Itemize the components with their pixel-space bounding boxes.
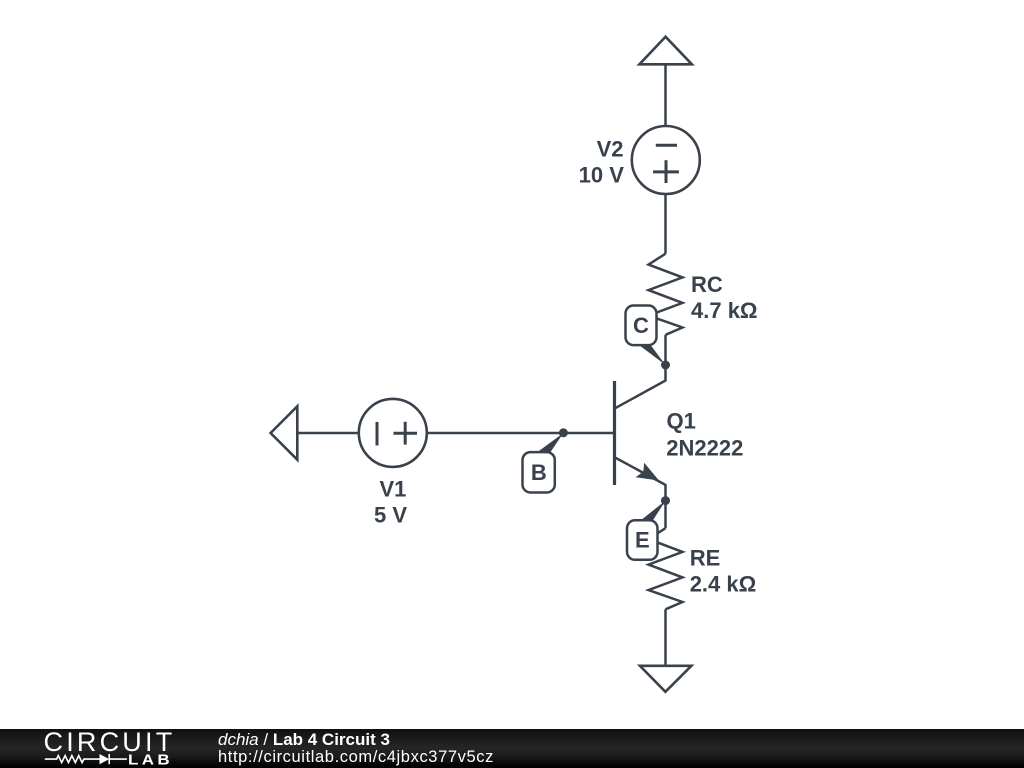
svg-text:5 V: 5 V: [374, 503, 407, 528]
label 2.4 kOhm: [690, 572, 757, 597]
svg-text:B: B: [531, 460, 547, 485]
wire V1 to base (node B): [427, 432, 613, 435]
footer url text: [218, 749, 494, 766]
power flag V+ (top supply triangle): [639, 37, 692, 65]
svg-text:C: C: [633, 313, 649, 338]
junction dot node C: [661, 361, 670, 370]
node C label box: [626, 306, 666, 366]
label RC: [691, 272, 723, 297]
junction dot node E: [661, 496, 670, 505]
svg-text:RE: RE: [690, 546, 721, 571]
node E label box: [627, 501, 666, 560]
svg-text:LAB: LAB: [128, 751, 173, 768]
wire port to V1: [298, 432, 359, 435]
label 2N2222: [666, 436, 743, 461]
wire node E to RE top: [664, 501, 667, 529]
wire RE bottom to ground: [664, 609, 667, 665]
resistor RE: [649, 528, 683, 609]
svg-text:RC: RC: [691, 272, 723, 297]
label 10 V: [579, 163, 625, 188]
wire collector jog: [615, 365, 666, 408]
label V2: [597, 137, 624, 162]
wire emitter jog: [664, 485, 667, 501]
CircuitLab logo: [0, 729, 200, 768]
svg-text:V2: V2: [597, 137, 624, 162]
svg-text:V1: V1: [379, 477, 406, 502]
wire V2 bottom to RC top: [664, 194, 667, 254]
footer title text: [218, 731, 390, 748]
node B label box: [523, 433, 564, 493]
transistor Q1: [615, 381, 666, 485]
input port flag (left triangle): [271, 406, 298, 459]
wire RC bottom to node C: [664, 335, 667, 365]
label V1: [379, 477, 406, 502]
junction dot node B: [559, 428, 568, 437]
svg-text:Q1: Q1: [667, 408, 696, 433]
svg-text:10 V: 10 V: [579, 163, 625, 188]
resistor RC: [649, 254, 683, 335]
label 4.7 kOhm: [691, 298, 758, 323]
svg-text:2N2222: 2N2222: [666, 436, 743, 461]
ground: [640, 666, 692, 692]
label Q1: [667, 408, 696, 433]
label 5 V: [374, 503, 407, 528]
svg-text:2.4 kΩ: 2.4 kΩ: [690, 572, 757, 597]
wire supply flag to V2 top: [664, 64, 667, 127]
svg-text:4.7 kΩ: 4.7 kΩ: [691, 298, 758, 323]
voltage source V1: [359, 399, 427, 467]
svg-text:E: E: [635, 528, 650, 553]
voltage source V2: [632, 126, 700, 194]
label RE: [690, 546, 721, 571]
